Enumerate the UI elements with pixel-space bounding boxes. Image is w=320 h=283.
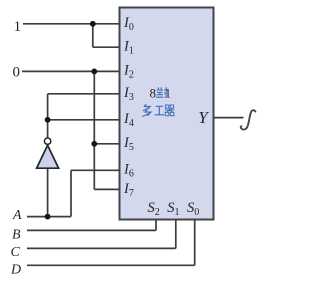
wire net0 to I5 xyxy=(94,143,119,145)
junction dot net0 top xyxy=(91,69,97,75)
glyph 多 (duo) hand-drawn xyxy=(142,104,151,116)
wire A to I6 xyxy=(71,169,120,171)
svg-text:1: 1 xyxy=(14,19,22,35)
wire net0 horizontal to I2 xyxy=(22,70,120,72)
inverter triangle xyxy=(37,145,59,168)
glyph 工 (gong) hand-drawn xyxy=(155,106,164,115)
wire net1 vertical drop xyxy=(92,24,94,47)
wire notA to I3 xyxy=(48,93,120,95)
junction dot notA I4 branch xyxy=(45,117,51,123)
svg-text:Y: Y xyxy=(198,108,209,127)
wire output Y to f xyxy=(214,117,244,119)
svg-text:C: C xyxy=(11,245,21,260)
junction dot net1 xyxy=(90,21,96,27)
glyph 器 (qi) hand-drawn xyxy=(165,105,174,116)
svg-text:A: A xyxy=(12,208,22,223)
wire net0 vertical drop xyxy=(93,71,95,189)
svg-text:8: 8 xyxy=(150,85,157,100)
wire A horizontal xyxy=(27,216,71,218)
wire D horizontal xyxy=(27,264,195,266)
glyph 對 (dui) hand-drawn xyxy=(156,87,168,97)
wire notA to I4 xyxy=(48,119,120,121)
wire B vertical to S2 xyxy=(155,220,157,231)
svg-text:1: 1 xyxy=(165,86,171,100)
wire D vertical to S0 xyxy=(194,220,196,266)
junction dot net0 I5 branch xyxy=(91,141,97,147)
svg-text:D: D xyxy=(10,263,21,278)
wire C horizontal xyxy=(27,247,176,249)
wire notA vertical xyxy=(47,94,49,138)
wire net1 to I1 xyxy=(93,46,120,48)
inverter bubble xyxy=(44,138,50,144)
mux body U1 (8-to-1 multiplexer) xyxy=(120,8,214,220)
label f xyxy=(241,110,256,129)
svg-text:B: B xyxy=(12,227,21,242)
wire net1 horizontal to I0 xyxy=(23,23,120,25)
wire net0 to I7 xyxy=(94,188,119,190)
wire C vertical to S1 xyxy=(175,220,177,249)
wire B horizontal xyxy=(27,229,156,231)
wire A vertical rise xyxy=(70,170,72,216)
junction dot A inverter branch xyxy=(45,214,51,220)
svg-text:0: 0 xyxy=(13,65,21,81)
wire inverter input vertical xyxy=(47,169,49,217)
